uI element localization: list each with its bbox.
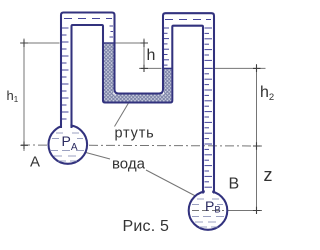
mercury fill in middle U-tube: [104, 43, 171, 102]
tube outer wall contour: [61, 13, 214, 194]
svg-text:Рис. 5: Рис. 5: [123, 218, 170, 235]
mercury surface left leg: [104, 42, 115, 44]
water ticks middle-right leg above mercury: [164, 28, 169, 65]
bulb B (vessel with PB): [189, 191, 228, 230]
water dashes in bulb A: [51, 133, 84, 161]
reference line right mercury level y=68.4: [139, 67, 266, 69]
water ticks middle-left leg above mercury: [110, 26, 114, 37]
tube inner wall contour: [72, 25, 204, 194]
water dashes top1 horizontal tube: [64, 18, 112, 20]
svg-text:A: A: [30, 154, 40, 171]
svg-text:ртуть: ртуть: [115, 126, 155, 142]
svg-text:вода: вода: [112, 156, 146, 173]
axis dashes through bulb B: [192, 210, 224, 212]
bulb A (vessel with PA): [49, 125, 88, 164]
water dashes in bulb B: [192, 199, 224, 227]
dimension line h1: [23, 39, 25, 152]
water ticks left tube leg1: [62, 28, 69, 119]
svg-text:z: z: [264, 165, 273, 185]
reference line left mercury level y=43: [20, 42, 148, 44]
svg-text:h: h: [147, 47, 156, 64]
leader line to mercury label: [115, 103, 129, 127]
mercury surface right leg: [164, 67, 172, 69]
reference line bulb B level y=210.5: [227, 210, 262, 212]
dimension line h2 / z: [256, 64, 258, 214]
neck joint erase bulb A: [62, 119, 71, 130]
water dashes top2 horizontal tube: [165, 19, 211, 21]
dimension end crosses: [21, 40, 261, 215]
water ticks right tube leg4: [205, 28, 213, 187]
leader line to water label (bulb A to bulb B): [84, 152, 196, 196]
svg-text:B: B: [229, 176, 240, 193]
axis line through bulb A (dash-dot): [21, 145, 262, 146]
dimension line h: [143, 39, 145, 73]
neck joint erase bulb B: [205, 186, 212, 196]
